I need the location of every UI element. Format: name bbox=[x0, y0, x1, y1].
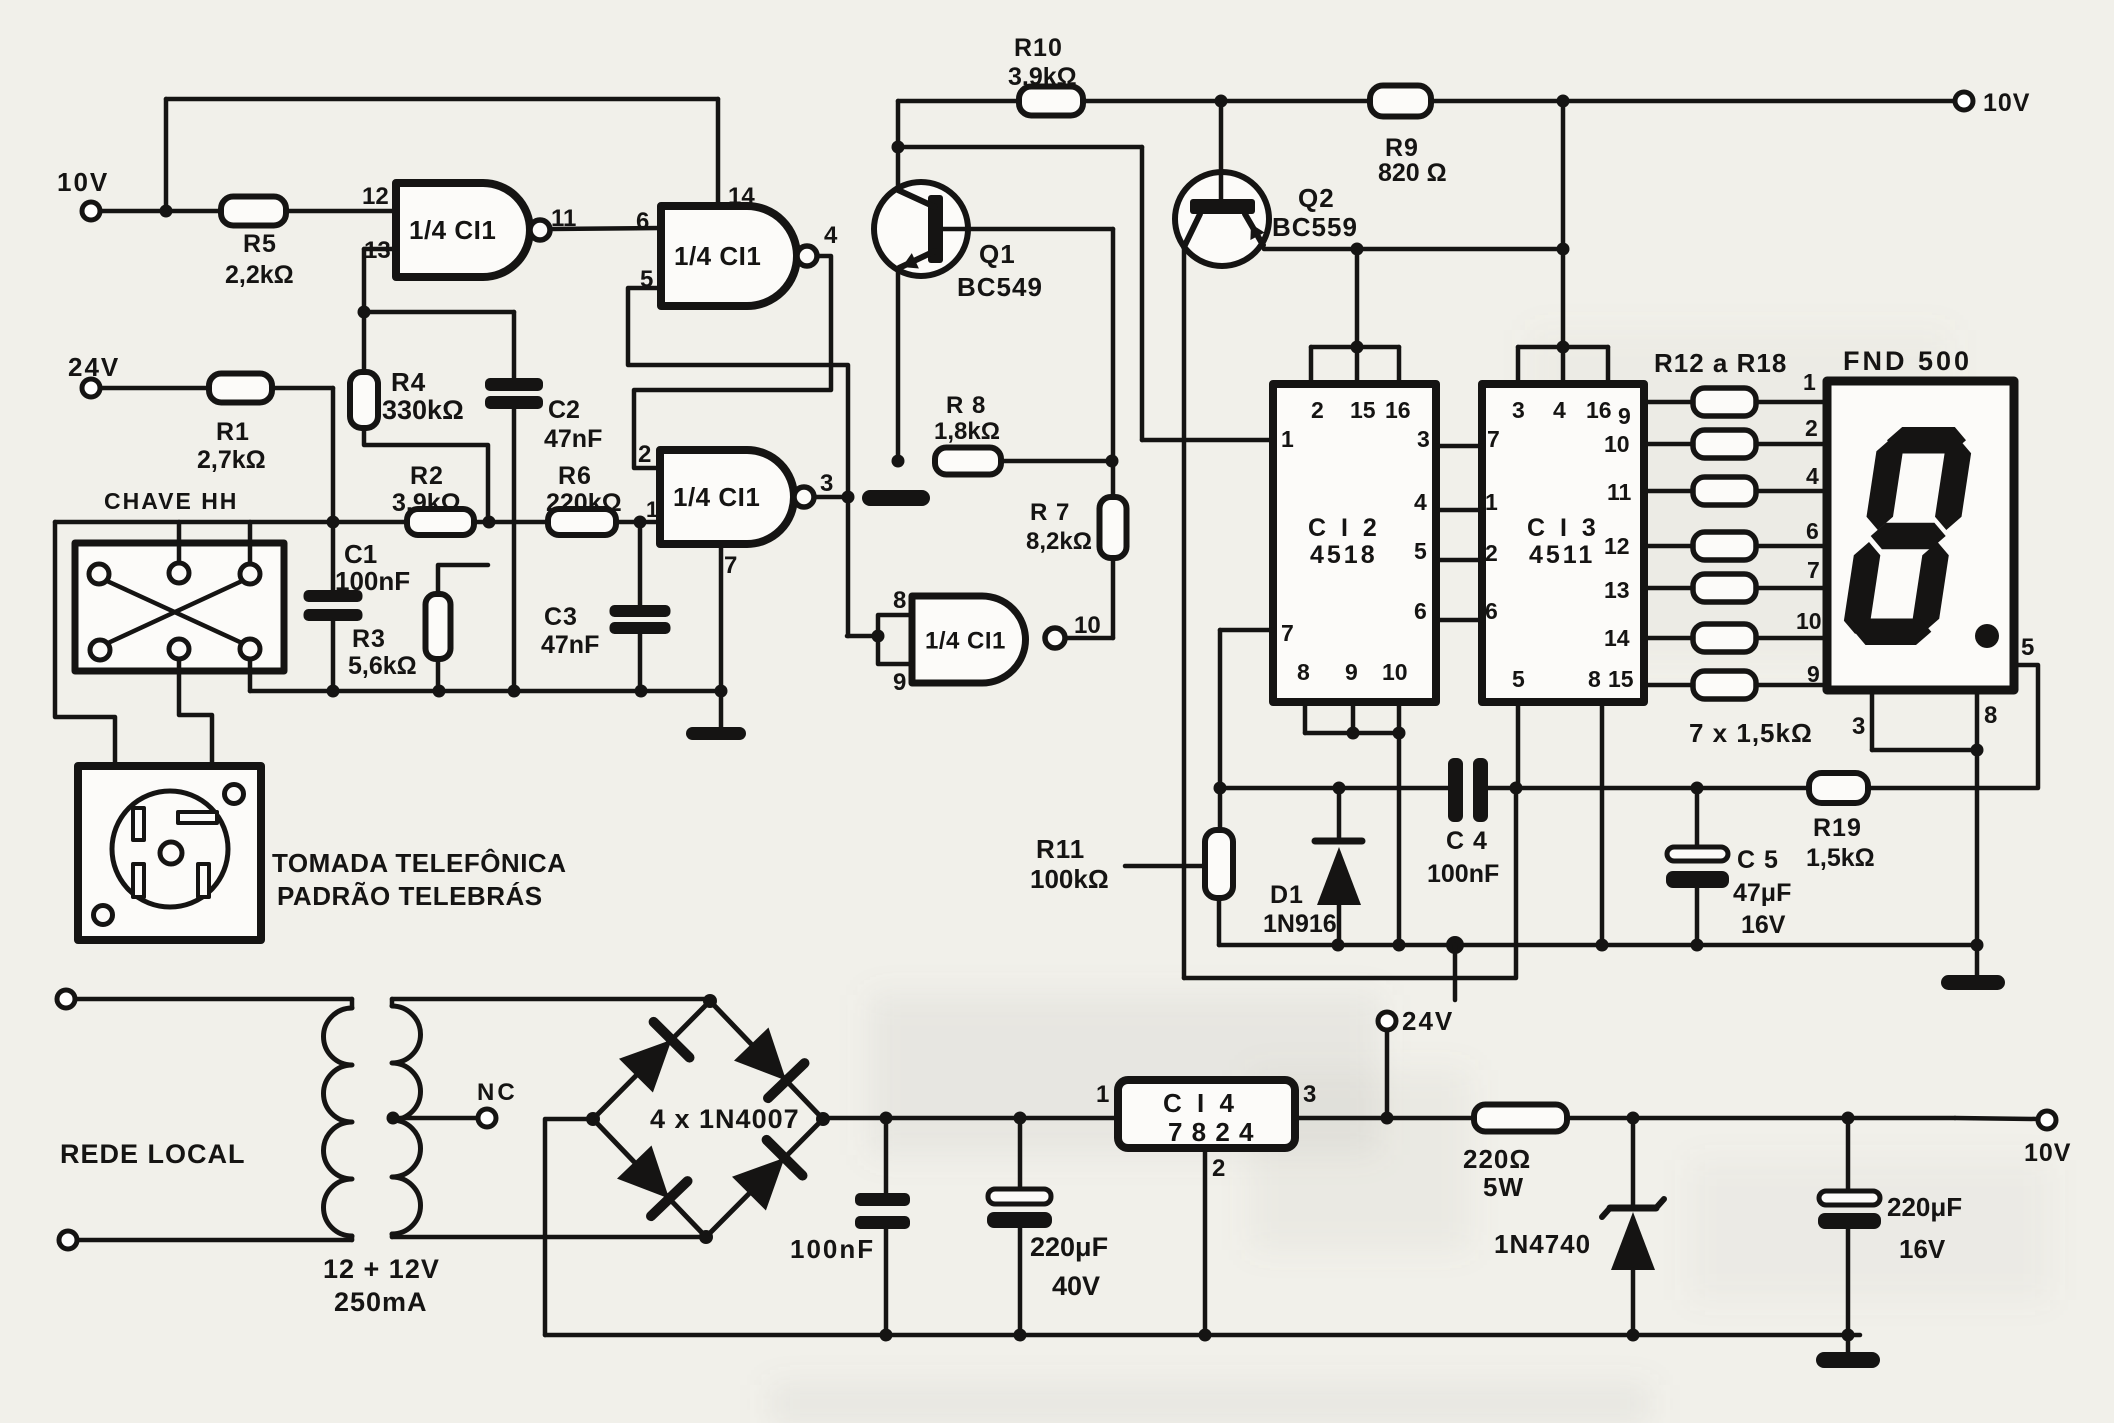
svg-text:8: 8 bbox=[893, 587, 906, 614]
svg-text:10V: 10V bbox=[1983, 89, 2030, 117]
svg-text:2: 2 bbox=[1311, 397, 1324, 423]
svg-text:8: 8 bbox=[1588, 666, 1601, 692]
svg-text:15: 15 bbox=[1350, 397, 1376, 423]
svg-text:7: 7 bbox=[1281, 620, 1294, 646]
svg-text:3: 3 bbox=[1512, 397, 1525, 423]
svg-text:220μF: 220μF bbox=[1887, 1192, 1962, 1222]
svg-text:6: 6 bbox=[636, 208, 649, 235]
svg-text:12: 12 bbox=[1604, 533, 1630, 559]
svg-text:1: 1 bbox=[1485, 489, 1498, 515]
svg-text:1: 1 bbox=[1803, 369, 1816, 395]
svg-text:100nF: 100nF bbox=[1427, 860, 1499, 888]
svg-text:4511: 4511 bbox=[1529, 541, 1595, 569]
svg-text:1/4 CI1: 1/4 CI1 bbox=[673, 482, 760, 512]
svg-text:3: 3 bbox=[1303, 1081, 1316, 1108]
svg-text:5,6kΩ: 5,6kΩ bbox=[348, 652, 417, 680]
svg-text:REDE LOCAL: REDE LOCAL bbox=[60, 1139, 246, 1169]
svg-text:1: 1 bbox=[1281, 426, 1294, 452]
svg-text:100nF: 100nF bbox=[790, 1234, 875, 1264]
svg-text:14: 14 bbox=[1604, 625, 1630, 651]
svg-text:CHAVE HH: CHAVE HH bbox=[104, 488, 238, 514]
svg-text:100kΩ: 100kΩ bbox=[1030, 864, 1109, 894]
svg-text:C I 3: C I 3 bbox=[1527, 514, 1600, 542]
svg-text:12: 12 bbox=[362, 183, 389, 210]
svg-text:1N916: 1N916 bbox=[1263, 910, 1337, 938]
svg-text:R3: R3 bbox=[352, 625, 386, 653]
svg-text:2: 2 bbox=[1485, 540, 1498, 566]
svg-text:47nF: 47nF bbox=[544, 425, 602, 453]
svg-text:250mA: 250mA bbox=[334, 1287, 428, 1317]
svg-text:12 + 12V: 12 + 12V bbox=[323, 1254, 440, 1284]
svg-text:4 x 1N4007: 4 x 1N4007 bbox=[650, 1104, 800, 1134]
svg-text:R11: R11 bbox=[1036, 834, 1085, 864]
svg-text:2: 2 bbox=[1805, 415, 1818, 441]
svg-text:8: 8 bbox=[1984, 702, 1997, 729]
svg-text:40V: 40V bbox=[1052, 1271, 1100, 1301]
svg-text:3: 3 bbox=[1852, 713, 1865, 740]
svg-text:FND 500: FND 500 bbox=[1843, 346, 1972, 376]
svg-text:C I 4: C I 4 bbox=[1163, 1088, 1238, 1118]
svg-text:7 8 2 4: 7 8 2 4 bbox=[1168, 1117, 1255, 1147]
svg-text:4: 4 bbox=[1553, 397, 1566, 423]
svg-text:11: 11 bbox=[1607, 479, 1632, 505]
svg-text:16V: 16V bbox=[1741, 911, 1786, 939]
svg-text:1/4 CI1: 1/4 CI1 bbox=[925, 628, 1006, 655]
svg-text:D1: D1 bbox=[1270, 881, 1304, 909]
svg-text:7: 7 bbox=[724, 552, 737, 579]
svg-text:1/4 CI1: 1/4 CI1 bbox=[674, 241, 761, 271]
svg-text:220kΩ: 220kΩ bbox=[546, 489, 622, 517]
svg-text:2,7kΩ: 2,7kΩ bbox=[197, 446, 266, 474]
svg-text:5W: 5W bbox=[1483, 1172, 1524, 1202]
svg-text:3: 3 bbox=[820, 470, 833, 497]
svg-text:R6: R6 bbox=[558, 462, 592, 490]
svg-text:R 7: R 7 bbox=[1030, 499, 1070, 526]
svg-text:16: 16 bbox=[1586, 397, 1612, 423]
svg-text:100nF: 100nF bbox=[335, 566, 410, 596]
svg-text:5: 5 bbox=[1512, 666, 1525, 692]
svg-text:330kΩ: 330kΩ bbox=[382, 395, 464, 425]
svg-text:16V: 16V bbox=[1899, 1234, 1946, 1264]
svg-text:15: 15 bbox=[1608, 666, 1634, 692]
svg-text:R12 a R18: R12 a R18 bbox=[1654, 348, 1787, 378]
svg-text:3,9kΩ: 3,9kΩ bbox=[392, 489, 461, 517]
svg-text:1N4740: 1N4740 bbox=[1494, 1229, 1591, 1259]
svg-text:6: 6 bbox=[1806, 518, 1819, 544]
svg-text:820 Ω: 820 Ω bbox=[1378, 159, 1447, 187]
svg-text:2,2kΩ: 2,2kΩ bbox=[225, 261, 294, 289]
svg-text:2: 2 bbox=[1212, 1155, 1225, 1182]
svg-text:10V: 10V bbox=[57, 167, 109, 197]
svg-text:47nF: 47nF bbox=[541, 631, 599, 659]
svg-text:10: 10 bbox=[1074, 612, 1101, 639]
svg-text:220μF: 220μF bbox=[1030, 1232, 1108, 1262]
svg-text:R10: R10 bbox=[1014, 34, 1063, 62]
svg-text:8: 8 bbox=[1297, 659, 1310, 685]
svg-text:Q1: Q1 bbox=[979, 239, 1016, 269]
svg-text:47μF: 47μF bbox=[1733, 879, 1791, 907]
svg-text:NC: NC bbox=[477, 1079, 518, 1106]
svg-text:7: 7 bbox=[1487, 426, 1500, 452]
svg-text:R1: R1 bbox=[216, 418, 250, 446]
svg-text:9: 9 bbox=[893, 669, 906, 696]
svg-text:220Ω: 220Ω bbox=[1463, 1144, 1531, 1174]
svg-text:TOMADA TELEFÔNICA: TOMADA TELEFÔNICA bbox=[272, 848, 567, 878]
svg-text:9: 9 bbox=[1345, 659, 1358, 685]
svg-text:PADRÃO TELEBRÁS: PADRÃO TELEBRÁS bbox=[277, 881, 543, 911]
svg-text:5: 5 bbox=[2021, 634, 2034, 661]
svg-text:7 x 1,5kΩ: 7 x 1,5kΩ bbox=[1689, 718, 1813, 748]
svg-text:24V: 24V bbox=[1402, 1006, 1454, 1036]
svg-text:10V: 10V bbox=[2024, 1139, 2071, 1167]
svg-text:C 4: C 4 bbox=[1446, 827, 1488, 855]
svg-text:4: 4 bbox=[824, 222, 838, 249]
svg-text:1,8kΩ: 1,8kΩ bbox=[934, 418, 1000, 445]
svg-text:13: 13 bbox=[1604, 577, 1630, 603]
svg-text:7: 7 bbox=[1807, 557, 1820, 583]
svg-text:C1: C1 bbox=[344, 539, 377, 569]
svg-text:8,2kΩ: 8,2kΩ bbox=[1026, 528, 1092, 555]
svg-text:4518: 4518 bbox=[1310, 541, 1378, 569]
svg-text:C2: C2 bbox=[548, 396, 580, 424]
svg-text:R9: R9 bbox=[1385, 134, 1419, 162]
svg-text:10: 10 bbox=[1382, 659, 1408, 685]
svg-text:R4: R4 bbox=[391, 367, 426, 397]
svg-text:6: 6 bbox=[1485, 598, 1498, 624]
svg-text:Q2: Q2 bbox=[1298, 183, 1335, 213]
svg-text:10: 10 bbox=[1604, 431, 1630, 457]
svg-text:16: 16 bbox=[1385, 397, 1411, 423]
svg-text:C I 2: C I 2 bbox=[1308, 514, 1381, 542]
svg-text:9: 9 bbox=[1807, 661, 1820, 687]
svg-text:5: 5 bbox=[1414, 538, 1427, 564]
svg-text:BC549: BC549 bbox=[957, 272, 1043, 302]
svg-text:4: 4 bbox=[1806, 463, 1819, 489]
svg-text:R5: R5 bbox=[243, 230, 277, 258]
svg-text:3: 3 bbox=[1417, 426, 1430, 452]
svg-text:1: 1 bbox=[1096, 1081, 1109, 1108]
svg-text:6: 6 bbox=[1414, 598, 1427, 624]
svg-text:1,5kΩ: 1,5kΩ bbox=[1806, 844, 1875, 872]
svg-text:C 5: C 5 bbox=[1737, 846, 1779, 874]
svg-text:10: 10 bbox=[1796, 608, 1822, 634]
svg-text:BC559: BC559 bbox=[1272, 212, 1358, 242]
svg-text:1/4 CI1: 1/4 CI1 bbox=[409, 215, 496, 245]
svg-text:4: 4 bbox=[1414, 489, 1427, 515]
svg-text:2: 2 bbox=[638, 441, 651, 468]
svg-text:R2: R2 bbox=[410, 462, 444, 490]
svg-text:9: 9 bbox=[1618, 403, 1631, 429]
svg-text:R19: R19 bbox=[1813, 814, 1862, 842]
svg-text:3,9kΩ: 3,9kΩ bbox=[1008, 63, 1077, 91]
svg-text:R 8: R 8 bbox=[946, 392, 986, 419]
svg-text:C3: C3 bbox=[544, 603, 578, 631]
